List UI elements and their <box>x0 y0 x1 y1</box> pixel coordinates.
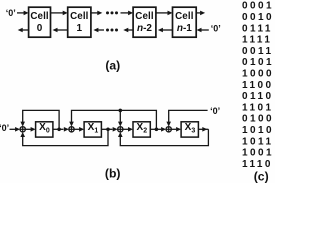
wire dots to Cell n-2 (top) <box>121 11 134 16</box>
wire '0' into Cell n-1 (bottom right) <box>197 28 209 33</box>
svg-text:‘0’: ‘0’ <box>210 106 220 116</box>
wire '0' top right into G4 top <box>166 110 207 126</box>
wire feedback loop X1 out under X0 into G1 bottom <box>20 129 108 145</box>
svg-text:(a): (a) <box>105 58 120 72</box>
node X0 out junction <box>57 128 61 132</box>
wire node to XOR G4 <box>156 127 166 132</box>
node X2 out junction <box>155 128 159 132</box>
cell n-2 <box>133 7 156 37</box>
ellipsis dots top <box>106 11 118 14</box>
svg-text:0111: 0111 <box>242 23 273 34</box>
svg-text:1100: 1100 <box>242 80 273 91</box>
wire Cell n-1 to Cell n-2 (bottom) <box>158 28 173 33</box>
wire feedback loop X0 out over X0 into G1 top <box>20 110 59 129</box>
svg-text:1101: 1101 <box>242 102 273 113</box>
svg-text:0101: 0101 <box>242 57 274 68</box>
wire node to XOR G3 <box>108 127 118 132</box>
wire G3 to X2 <box>123 127 133 132</box>
wire Cell 0 to Cell 1 (top) <box>51 11 68 16</box>
wire feedback loop X2 out over X1,X2 into G2 top <box>69 110 156 129</box>
svg-text:0010: 0010 <box>242 12 274 23</box>
svg-text:Cell: Cell <box>70 11 89 22</box>
wire X3 output with arrow <box>198 127 208 132</box>
svg-text:‘0’: ‘0’ <box>0 123 9 133</box>
wire Cell 0 out left (bottom) <box>18 28 29 33</box>
svg-text:1010: 1010 <box>242 125 274 136</box>
svg-text:0100: 0100 <box>242 114 274 125</box>
register X1 <box>84 122 101 137</box>
svg-text:1001: 1001 <box>242 148 274 159</box>
cell 1 <box>68 7 91 37</box>
svg-text:Cell: Cell <box>175 11 194 22</box>
wire X2 output to node <box>150 128 156 130</box>
svg-text:Cell: Cell <box>135 11 154 22</box>
svg-text:(c): (c) <box>254 169 269 183</box>
svg-text:0110: 0110 <box>242 91 273 102</box>
xor gate G2 <box>69 127 74 132</box>
xor gate G4 <box>166 127 171 132</box>
wire Cell 1 out to dots (top) <box>91 11 102 16</box>
xor gate G1 <box>20 127 25 132</box>
cell n-1 <box>173 7 197 37</box>
wire G2 to X1 <box>74 127 84 132</box>
state sequence column (c) <box>242 1 274 170</box>
wire dots to Cell 1 (bottom) <box>93 28 104 33</box>
svg-text:0001: 0001 <box>242 1 274 12</box>
node branch on top loop above G3 <box>119 109 123 113</box>
cell 0 <box>29 7 51 37</box>
svg-text:1011: 1011 <box>242 136 273 147</box>
svg-text:Cell: Cell <box>30 11 49 22</box>
wire G4 to X3 <box>171 127 181 132</box>
svg-text:n-2: n-2 <box>137 23 152 34</box>
wire Cell n-2 to Cell n-1 (top) <box>156 11 173 16</box>
wire X1 output to node <box>101 128 108 130</box>
svg-text:1: 1 <box>77 23 83 34</box>
svg-text:n-1: n-1 <box>177 23 192 34</box>
svg-text:‘0’: ‘0’ <box>6 8 16 18</box>
wire branch down into G3 top <box>118 110 123 126</box>
wire G1 to X0 <box>25 127 35 132</box>
wire Cell 1 to Cell 0 (bottom) <box>53 28 68 33</box>
wire node to XOR G2 <box>59 127 69 132</box>
register X2 <box>133 122 150 137</box>
wire '0' to XOR G1 <box>10 127 21 132</box>
svg-text:1111: 1111 <box>242 35 272 46</box>
wire Cell n-1 output (top right) <box>196 11 205 16</box>
svg-text:0: 0 <box>37 23 43 34</box>
svg-text:0011: 0011 <box>242 46 273 57</box>
wire Cell n-2 to dots (bottom) <box>123 28 133 33</box>
node X1 out junction <box>106 128 110 132</box>
register X0 <box>36 122 53 137</box>
register X3 <box>181 122 198 137</box>
svg-text:1110: 1110 <box>242 159 273 170</box>
wire input to Cell 0 <box>17 11 29 16</box>
xor gate G3 <box>118 127 123 132</box>
svg-text:1000: 1000 <box>242 69 274 80</box>
svg-text:‘0’: ‘0’ <box>211 23 221 33</box>
svg-text:(b): (b) <box>105 167 121 181</box>
wire feedback loop X3 out under X2,X3 into G3 bottom <box>118 129 208 145</box>
ellipsis dots bottom <box>106 29 118 32</box>
wire X0 output to node <box>53 128 59 130</box>
